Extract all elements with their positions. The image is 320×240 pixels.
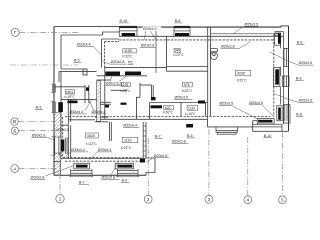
wall 949 bottom double xyxy=(167,66,209,68)
room 620 xyxy=(164,106,174,110)
svg-text:575: 575 xyxy=(184,83,190,87)
svg-text:Ø20х2.8: Ø20х2.8 xyxy=(32,133,46,137)
window RW1 xyxy=(283,48,285,66)
black shafts hall band xyxy=(106,72,121,76)
black shaft porch xyxy=(186,124,193,128)
room2503 east wall xyxy=(84,85,86,103)
svg-text:Ø25х3.5: Ø25х3.5 xyxy=(175,95,189,99)
black shaft corridor xyxy=(151,97,156,100)
svg-text:Ø20х2.8: Ø20х2.8 xyxy=(172,140,186,144)
svg-text:t=22°С: t=22°С xyxy=(121,146,132,150)
svg-text:t=22°С: t=22°С xyxy=(237,79,248,83)
svg-text:5: 5 xyxy=(281,198,284,203)
svg-text:В-8: В-8 xyxy=(296,76,302,80)
svg-text:Ø20х2.8: Ø20х2.8 xyxy=(102,176,116,180)
svg-text:В: В xyxy=(13,119,16,124)
wall 949 right double xyxy=(207,27,209,119)
axis B horizontal xyxy=(19,130,57,132)
riser pipe xyxy=(155,31,157,73)
svg-text:В-3: В-3 xyxy=(36,105,42,109)
svg-text:t=19°С: t=19°С xyxy=(65,95,76,99)
svg-text:Ø33х4.4: Ø33х4.4 xyxy=(92,110,106,114)
svg-text:Ø20х2.8: Ø20х2.8 xyxy=(141,44,155,48)
svg-text:135: 135 xyxy=(123,83,129,87)
svg-text:1120: 1120 xyxy=(188,106,195,110)
corridor wall jog xyxy=(137,97,141,119)
svg-text:t=25°С: t=25°С xyxy=(120,89,131,93)
svg-text:В-8: В-8 xyxy=(296,112,302,116)
window W3 bottom xyxy=(71,170,92,172)
corridor wall h85 xyxy=(140,84,152,86)
room2503 top xyxy=(54,86,85,88)
annex tab xyxy=(83,69,87,75)
svg-text:В-5: В-5 xyxy=(74,59,80,63)
axes dash-dot xyxy=(10,32,282,195)
porch steps xyxy=(216,130,238,132)
wall bottom-right outer xyxy=(253,130,289,132)
wall 949 left xyxy=(166,36,168,71)
svg-text:В-8: В-8 xyxy=(297,41,303,45)
window W4 bottom xyxy=(117,170,138,172)
wall corridor south solid xyxy=(97,118,208,120)
svg-text:Ø20х2.8 Д: Ø20х2.8 Д xyxy=(106,81,122,85)
window W1 xyxy=(52,102,54,113)
wall wing SE corner xyxy=(146,158,155,175)
axis extra y65 xyxy=(10,64,78,66)
dashed wing left interior xyxy=(62,117,64,158)
dashed right interior xyxy=(273,35,275,118)
svg-text:Ø32х4.4: Ø32х4.4 xyxy=(123,124,137,128)
wall porch step right xyxy=(252,121,254,132)
svg-text:t=16°С: t=16°С xyxy=(185,112,196,116)
lintel top2 xyxy=(174,26,190,28)
svg-text:2503: 2503 xyxy=(66,90,74,94)
svg-text:Ø20х2.8: Ø20х2.8 xyxy=(221,44,235,48)
wall recess outer xyxy=(208,126,253,128)
bottom-right window xyxy=(253,123,282,125)
window W2 xyxy=(54,137,56,156)
svg-text:Ø20х2.8: Ø20х2.8 xyxy=(57,128,70,132)
wall annex step xyxy=(103,32,120,35)
dashed top interior xyxy=(119,39,274,41)
wall main top outer xyxy=(119,26,281,28)
room 4230 xyxy=(235,70,251,76)
wall room1150 bottom xyxy=(105,67,167,69)
wall y80 xyxy=(97,79,112,81)
small rooms divider xyxy=(180,103,182,117)
hatched interior wall xyxy=(97,81,101,122)
window top1 xyxy=(119,27,137,29)
radiator RR0 xyxy=(275,33,281,45)
wall right outer xyxy=(288,26,290,131)
svg-text:В-8: В-8 xyxy=(175,19,181,23)
black shaft 2503 xyxy=(86,87,89,91)
svg-text:В-9: В-9 xyxy=(122,178,128,182)
svg-text:t=22°С: t=22°С xyxy=(122,54,133,58)
svg-text:4230: 4230 xyxy=(237,72,245,76)
room2503 bottom xyxy=(61,98,97,100)
svg-text:4: 4 xyxy=(247,198,250,203)
svg-text:ПС: ПС xyxy=(128,61,134,65)
svg-text:Ø20х2.8: Ø20х2.8 xyxy=(31,176,45,180)
window RW3 xyxy=(284,105,291,124)
radiator W2 xyxy=(61,140,65,152)
grid bubbles xyxy=(11,28,287,203)
wall wing east double xyxy=(142,122,144,158)
room 1150 xyxy=(123,49,137,53)
svg-text:В-5: В-5 xyxy=(187,134,193,138)
room1119 left wall xyxy=(109,122,111,141)
corridor wall v151 xyxy=(151,85,153,100)
svg-text:Ø20х2.8: Ø20х2.8 xyxy=(154,154,168,158)
wall hall left xyxy=(101,39,103,68)
window W0 annex left xyxy=(52,84,54,93)
radiator W3 xyxy=(74,163,90,169)
small rooms right xyxy=(205,103,207,117)
svg-text:3: 3 xyxy=(208,197,211,202)
hall left wall lower xyxy=(104,68,106,120)
axis 4 vertical xyxy=(247,137,249,195)
lintel top1 xyxy=(119,26,137,28)
left rooms walls xyxy=(95,116,109,118)
axis 5 vertical xyxy=(281,132,283,195)
svg-text:1150: 1150 xyxy=(124,49,132,53)
svg-text:В-7: В-7 xyxy=(155,134,161,138)
window top2 xyxy=(174,27,190,29)
svg-text:Ø25х3.5: Ø25х3.5 xyxy=(220,102,234,106)
axis 3 vertical xyxy=(208,129,210,195)
wall wing bottom outer xyxy=(54,174,146,176)
room 949 xyxy=(174,49,180,53)
label O33 topwall xyxy=(143,27,162,31)
hatch left wall corner xyxy=(54,153,60,161)
wall main top inner xyxy=(119,35,284,37)
svg-text:В-10: В-10 xyxy=(264,134,272,138)
small rooms left xyxy=(149,103,151,120)
radiator RR2 xyxy=(277,106,282,121)
corridor wall h90 xyxy=(111,89,127,91)
wall shaft band bottom xyxy=(97,75,148,77)
svg-text:Ø25х3.5: Ø25х3.5 xyxy=(245,23,259,27)
small rooms top xyxy=(150,102,209,104)
axis 1 vertical xyxy=(59,152,61,194)
wall annex inner top xyxy=(61,34,103,36)
right wall inner lines xyxy=(283,32,285,125)
wall annex top outer xyxy=(54,26,119,28)
corridor wall v140 xyxy=(139,83,141,97)
radiator top2 xyxy=(175,33,189,36)
svg-text:В-10: В-10 xyxy=(120,19,128,23)
svg-text:Ø33х4.4: Ø33х4.4 xyxy=(98,148,112,152)
room 2503 xyxy=(65,90,75,94)
left rooms h102 xyxy=(97,101,112,103)
black shaft wing corner xyxy=(140,159,145,163)
wall annex bottom xyxy=(61,68,85,70)
axis V horizontal xyxy=(18,121,57,123)
corridor bottom dashed xyxy=(65,116,270,118)
room 135 xyxy=(122,83,131,87)
wall recess step left xyxy=(207,119,209,127)
toilet xyxy=(211,49,218,52)
wall hall left dashed xyxy=(104,42,106,68)
radiator W4 xyxy=(115,163,134,169)
svg-text:Ø25х3.5: Ø25х3.5 xyxy=(299,61,313,65)
window RW2 xyxy=(282,76,289,87)
room 1620 xyxy=(86,133,99,138)
room 575 xyxy=(183,82,193,87)
svg-text:1620: 1620 xyxy=(87,134,95,138)
svg-text:Ø33х4.4: Ø33х4.4 xyxy=(143,27,157,31)
svg-text:В-7: В-7 xyxy=(79,180,85,184)
svg-text:Ø33х4.4: Ø33х4.4 xyxy=(77,43,91,47)
svg-text:1: 1 xyxy=(59,196,62,201)
room 1119 xyxy=(122,137,138,142)
svg-text:Ø33х4.4: Ø33х4.4 xyxy=(71,148,85,152)
radiator W1 xyxy=(58,102,63,112)
hatch left wall mid xyxy=(54,113,60,138)
wall wing top inner xyxy=(59,71,97,73)
black shaft smallroom2 xyxy=(198,101,205,104)
axis 2 vertical xyxy=(147,138,149,195)
radiator RR1 xyxy=(274,68,280,87)
dashed wing bottom interior xyxy=(65,160,143,162)
axis A horizontal xyxy=(19,168,57,170)
pipe along top wall right xyxy=(211,33,280,35)
radiator top1 xyxy=(122,33,135,36)
svg-text:2: 2 xyxy=(147,197,150,202)
wall left outer xyxy=(53,27,55,176)
bottom-right radiator xyxy=(257,119,274,124)
svg-text:Ø20х2.8: Ø20х2.8 xyxy=(111,60,125,64)
svg-text:Ø25х3.5: Ø25х3.5 xyxy=(299,98,313,102)
axis G horizontal xyxy=(19,31,80,33)
wall annex inner left xyxy=(60,35,62,69)
svg-text:t=20°С: t=20°С xyxy=(163,110,174,114)
wall wing bottom inner xyxy=(60,158,146,160)
partition x68 double xyxy=(67,99,69,119)
svg-text:Б: Б xyxy=(13,128,16,133)
wing inner left wall xyxy=(60,72,62,159)
wall h120 left xyxy=(68,119,95,121)
svg-text:949: 949 xyxy=(175,49,181,53)
svg-text:t=22°С: t=22°С xyxy=(182,89,193,93)
svg-text:t=22°С: t=22°С xyxy=(86,142,97,146)
svg-text:t=22°С: t=22°С xyxy=(173,53,184,57)
sills bottom windows xyxy=(70,176,94,178)
svg-text:1119: 1119 xyxy=(124,139,131,143)
room 1120 xyxy=(187,105,198,110)
svg-text:Ø33х4.4: Ø33х4.4 xyxy=(70,110,84,114)
svg-text:Ø25х3.5: Ø25х3.5 xyxy=(249,101,263,105)
